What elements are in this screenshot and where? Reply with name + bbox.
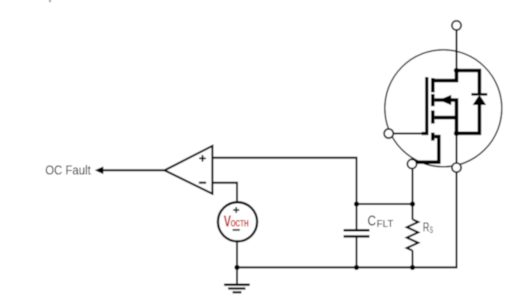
op-amp U1 comparator triangle [165, 146, 213, 194]
wire comparator noninverting input to CFLT node [212, 158, 356, 204]
svg-text:OC Fault: OC Fault [45, 163, 91, 178]
node source (junction dot) [454, 131, 459, 136]
node RS bottom [410, 265, 415, 270]
node drain (junction dot) [454, 68, 459, 73]
svg-text:OCTH: OCTH [231, 218, 249, 229]
transistor Q1 drain stub [433, 71, 457, 81]
wire VOCTH to ground node [236, 239, 238, 267]
terminal sense source (pin circle) [407, 159, 416, 168]
transistor Q1 package circle [385, 50, 502, 167]
wire source node to source terminal [456, 133, 458, 164]
wire comparator output with arrow [95, 167, 165, 175]
ground [224, 267, 250, 292]
terminal drain (pin circle) [452, 21, 461, 30]
node ground [234, 265, 239, 270]
capacitor C1 plates [344, 230, 370, 236]
terminal gate (pin circle) [384, 129, 393, 138]
source V1 VOCTH circle [218, 202, 257, 241]
node CFLT top [354, 201, 359, 206]
transistor Q1 gate bar [393, 77, 427, 134]
svg-text:S: S [430, 225, 433, 235]
transistor Q1 channel segment 3 [431, 110, 435, 123]
transistor Q1 source stub [435, 116, 457, 120]
transistor Q1 channel segment 4 (sense) [431, 133, 435, 141]
capacitor C1 label CFLT [368, 214, 394, 231]
body diode D1 bottom connection [457, 105, 480, 134]
wire drain terminal to drain node [456, 30, 458, 71]
body diode D1 triangle [473, 95, 487, 105]
resistor R1 label RS [423, 221, 433, 235]
svg-text:C: C [368, 214, 377, 230]
svg-text:R: R [423, 221, 430, 235]
transistor Q1 channel segment 1 [431, 78, 435, 92]
transistor Q1 channel segment 2 [431, 94, 435, 106]
wire comparator inverting input to VOCTH [212, 183, 237, 205]
svg-text:FLT: FLT [377, 219, 394, 230]
capacitor C1 bottom lead [356, 238, 358, 268]
body diode D1 cathode bar [471, 93, 487, 96]
wire RS node to sense terminal [412, 165, 414, 204]
node RS top [410, 201, 415, 206]
source V1 VOCTH label [224, 214, 249, 231]
resistor R1 bottom lead [412, 251, 414, 268]
transistor Q1 body connection with arrow [435, 95, 457, 133]
stray speck top left [49, 0, 51, 2]
resistor R1 zigzag [407, 219, 418, 250]
body diode D1 top connection [457, 71, 480, 94]
node CFLT bottom [354, 265, 359, 270]
wire ground rail to source terminal [237, 165, 457, 267]
capacitor C1 top lead [356, 204, 358, 229]
wire CFLT node to RS node [357, 203, 413, 205]
node OC Fault label [45, 163, 91, 178]
resistor R1 top lead [412, 204, 414, 219]
terminal source (pin circle) [452, 163, 461, 172]
transistor Q1 sense source path [416, 137, 439, 163]
